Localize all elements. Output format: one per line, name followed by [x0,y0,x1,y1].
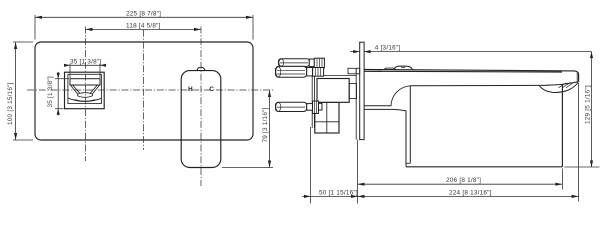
svg-text:50 [1 15/16"]: 50 [1 15/16"] [319,190,358,197]
svg-text:225 [8 7/8"]: 225 [8 7/8"] [126,11,161,18]
svg-text:129 [5 1/16"]: 129 [5 1/16"] [584,85,591,124]
svg-text:224 [8 13/16"]: 224 [8 13/16"] [449,190,492,197]
svg-text:118 [4 5/8"]: 118 [4 5/8"] [126,23,161,30]
svg-text:79 [3 1/16"]: 79 [3 1/16"] [262,107,269,142]
svg-text:206 [8 1/8"]: 206 [8 1/8"] [446,177,481,184]
svg-text:H: H [188,86,193,93]
svg-text:100 [3 15/16"]: 100 [3 15/16"] [7,82,14,125]
svg-text:C: C [209,86,214,93]
svg-text:4 [3/16"]: 4 [3/16"] [375,45,401,52]
svg-text:35 [1 3/8"]: 35 [1 3/8"] [47,76,54,107]
svg-text:35 [1 3/8"]: 35 [1 3/8"] [70,58,101,65]
